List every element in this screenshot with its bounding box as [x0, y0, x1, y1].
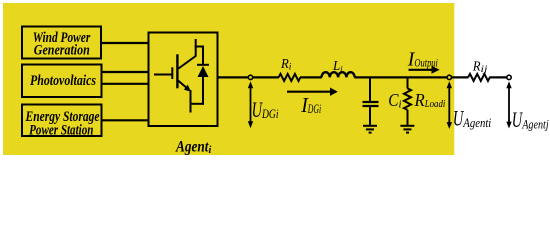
wire L_i to node2 [354, 76, 451, 78]
ground under R_Loadi [400, 125, 414, 127]
wire box1 to converter [100, 42, 149, 44]
ground under C_i [363, 125, 377, 127]
current arrow I_DGi [287, 91, 330, 93]
wire box3 to converter [101, 119, 150, 121]
diode D1 bottom lead [202, 76, 204, 105]
diode D1 top lead [202, 46, 204, 65]
voltage arrow U_Agentj [508, 86, 510, 124]
IGBT Q1 gate lead [154, 74, 172, 76]
wire node2 to R_ij [452, 76, 469, 78]
wire R_ij to node3 [489, 76, 509, 78]
resistor R_Loadi bottom lead [407, 110, 409, 125]
svg-text:Rij: Rij [472, 60, 488, 75]
IGBT Q1 collector diagonal [178, 56, 196, 69]
wire box2 upper to converter [101, 71, 150, 73]
resistor R_Loadi lead [407, 78, 409, 89]
current arrow I_Outputi [409, 69, 433, 71]
resistor R_Loadi zigzag [404, 88, 411, 110]
yellow panel background [3, 3, 454, 155]
capacitor C_i plates [363, 101, 379, 103]
inductor L_i [322, 72, 355, 77]
box Energy Storage Power Station [22, 105, 102, 139]
box Wind Power Generation [22, 27, 101, 59]
voltage arrow U_Agenti [448, 86, 450, 124]
IGBT Q1 body bar [176, 54, 178, 88]
svg-text:UAgenti: UAgenti [453, 106, 492, 131]
IGBT Q1 emitter arrowhead [184, 85, 191, 92]
capacitor C_i branch lead [369, 78, 371, 101]
bottom connector wire [191, 103, 204, 105]
wire box2 lower to converter [101, 83, 150, 85]
capacitor C_i bottom lead [369, 107, 371, 125]
diode D1 triangle [198, 66, 209, 77]
converter box U1 [149, 33, 218, 127]
svg-text:Generation: Generation [34, 43, 90, 59]
svg-text:Photovoltaics: Photovoltaics [30, 73, 96, 89]
wire R_i to L_i [300, 76, 322, 78]
IGBT Q1 collector stub [195, 39, 197, 57]
box Photovoltaics [22, 65, 102, 98]
svg-text:Power Station: Power Station [29, 123, 93, 139]
node C (agent j terminal) [507, 75, 511, 79]
node B (agent i terminal) [447, 75, 451, 79]
main bus wire [218, 76, 279, 78]
voltage arrow U_DGi [250, 86, 252, 123]
IGBT Q1 gate bar [171, 67, 173, 79]
IGBT Q1 emitter vertical [190, 90, 192, 113]
svg-text:UAgentj: UAgentj [512, 107, 549, 132]
resistor R_i zigzag [279, 74, 301, 81]
resistor R_ij zigzag [468, 74, 490, 81]
diode D1 cathode bar [197, 64, 209, 66]
svg-text:Agenti: Agenti [175, 138, 211, 156]
node A (DG output) [248, 75, 252, 79]
top connector wire [195, 46, 204, 48]
IGBT Q1 emitter diagonal [178, 81, 188, 90]
